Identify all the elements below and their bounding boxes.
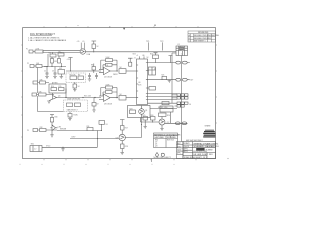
junction xyxy=(52,66,53,67)
junction xyxy=(61,66,62,67)
wire xyxy=(162,42,164,50)
attenuator group box A1 xyxy=(49,84,66,98)
op-amp U1 buffer xyxy=(80,49,176,54)
svg-text:TP1: TP1 xyxy=(146,41,149,43)
svg-text:SPARE: SPARE xyxy=(205,124,212,127)
connector oval pair P3 xyxy=(176,78,187,81)
resistor R8 vertical xyxy=(92,64,96,74)
svg-text:R8: R8 xyxy=(91,65,93,67)
small box R20 xyxy=(153,55,159,59)
svg-text:ATTEN: ATTEN xyxy=(52,81,58,84)
resistor R2 vertical xyxy=(92,41,97,52)
connector block J3 pins xyxy=(177,94,188,99)
junction xyxy=(116,70,117,71)
resistor R16 xyxy=(67,103,73,107)
svg-text:R24: R24 xyxy=(167,115,170,117)
wire xyxy=(148,42,150,50)
small box R22 xyxy=(148,87,156,91)
fold mark triangle xyxy=(123,28,125,30)
input row 2: connector J1-2 xyxy=(30,65,48,94)
scan speck xyxy=(154,25,155,26)
svg-text:GAIN SELECT: GAIN SELECT xyxy=(67,108,78,111)
input row 6: sensor box B1 xyxy=(30,146,98,152)
svg-text:R26: R26 xyxy=(151,115,154,117)
resistor R17 xyxy=(75,103,81,107)
zone tick marks left edge xyxy=(21,45,22,137)
junction xyxy=(47,66,48,67)
power tick +5V xyxy=(154,53,158,63)
resistor R14 xyxy=(51,88,57,91)
junction xyxy=(94,97,95,98)
svg-text:SCHEMATIC DIAGRAM DCU: SCHEMATIC DIAGRAM DCU xyxy=(194,145,220,148)
fanout wires 3 xyxy=(148,94,178,100)
svg-text:86203: 86203 xyxy=(177,150,181,152)
svg-text:S1: S1 xyxy=(106,124,108,126)
resistor R24 xyxy=(159,113,167,117)
svg-text:U5 7406: U5 7406 xyxy=(161,107,167,109)
svg-text:R7: R7 xyxy=(78,74,80,76)
svg-text:SENSE: SENSE xyxy=(60,129,67,131)
border frame xyxy=(23,28,216,159)
wire xyxy=(70,58,72,72)
ground xyxy=(168,80,171,83)
svg-text:.01: .01 xyxy=(106,65,108,67)
diode CR2 xyxy=(58,59,61,64)
capacitor C7 xyxy=(88,73,91,79)
svg-text:463 1042 001 REV C: 463 1042 001 REV C xyxy=(186,140,204,142)
resistor R32 xyxy=(162,102,169,105)
input row 4: connector J1-4 xyxy=(32,93,64,112)
resistor R12 xyxy=(40,81,46,84)
junction xyxy=(116,97,117,98)
diode CR1 xyxy=(51,59,54,64)
resistor R16a vertical xyxy=(73,84,77,88)
svg-text:SEE SHEET 1: SEE SHEET 1 xyxy=(194,41,206,43)
connector P1/J2 inline pair xyxy=(176,61,187,64)
svg-text:TP2: TP2 xyxy=(160,41,163,43)
ground xyxy=(160,129,163,131)
resistor R15 xyxy=(59,88,65,91)
wire bus xyxy=(44,54,66,67)
svg-text:P5: P5 xyxy=(27,130,29,132)
flag note symbol xyxy=(155,153,164,158)
feedback resistor R9 xyxy=(101,59,117,70)
ground xyxy=(120,153,124,155)
sheet fold tick bottom xyxy=(151,159,153,162)
svg-text:SCALE NONE SHEET 1 OF 1: SCALE NONE SHEET 1 OF 1 xyxy=(184,156,207,159)
stub wires to J3 xyxy=(172,95,177,98)
revision table xyxy=(188,31,216,42)
wire drop xyxy=(37,68,39,94)
svg-text:1 2: 1 2 xyxy=(34,149,36,151)
svg-text:R15: R15 xyxy=(59,86,62,88)
svg-text:MUX: MUX xyxy=(138,85,141,87)
svg-text:R19 R24: R19 R24 xyxy=(167,139,174,141)
transistor Q3 xyxy=(119,134,125,144)
resistor R17A xyxy=(68,112,72,121)
scan speck xyxy=(77,24,80,27)
dark logo cell xyxy=(196,148,204,151)
svg-text:Q4: Q4 xyxy=(58,96,60,98)
relay K1 xyxy=(176,46,188,56)
resistor R26 xyxy=(151,117,156,123)
svg-text:GAIN NETWORK: GAIN NETWORK xyxy=(67,98,81,101)
wires to J4 xyxy=(148,103,178,108)
wire harness vertical xyxy=(181,56,183,142)
resistor R21 xyxy=(162,76,167,79)
svg-text:E 28959: E 28959 xyxy=(206,150,213,152)
resistor R25 xyxy=(143,117,148,129)
svg-text:R4: R4 xyxy=(49,53,51,55)
input row 3: connector J1-3 xyxy=(33,81,49,84)
junction xyxy=(70,70,71,71)
ground xyxy=(45,77,49,79)
power tick +15V xyxy=(169,56,173,63)
fanout wire 1 xyxy=(148,62,190,64)
power tick xyxy=(68,57,72,59)
svg-text:NOTES: SEE SHEET 2: NOTES: SEE SHEET 2 xyxy=(154,157,172,159)
middle stage components xyxy=(61,82,102,98)
svg-text:R5: R5 xyxy=(59,52,61,54)
logic box U5 xyxy=(160,106,173,112)
svg-text:NEXT: NEXT xyxy=(177,143,181,145)
svg-text:VR1: VR1 xyxy=(59,68,62,70)
transistor Q2 xyxy=(141,117,166,129)
transistor Q1 xyxy=(139,109,145,115)
resistor R5 xyxy=(58,53,64,56)
transistor Q4 xyxy=(49,93,61,101)
resistor R6 xyxy=(70,76,77,80)
+V power tick xyxy=(92,40,97,42)
svg-text:REVISED PER ECO 1042 REL: REVISED PER ECO 1042 REL xyxy=(194,35,219,37)
bus junction dots xyxy=(62,124,142,148)
fanout wire 2 xyxy=(148,79,190,81)
svg-text:P2: P2 xyxy=(27,63,29,65)
svg-text:K1: K1 xyxy=(178,44,180,46)
bottom margin alignment dots xyxy=(20,164,175,165)
svg-text:SK 463 1042: SK 463 1042 xyxy=(193,154,208,156)
svg-text:U6: U6 xyxy=(138,82,140,84)
base wire Q3 xyxy=(70,138,119,140)
resistor R13 xyxy=(39,93,47,96)
resistor R3 xyxy=(36,65,42,68)
svg-text:CR3: CR3 xyxy=(58,127,61,129)
resistor R27 xyxy=(121,126,125,131)
ground xyxy=(50,135,54,137)
wire drop xyxy=(38,96,64,112)
input row 5: connector J1-5 xyxy=(33,129,57,132)
zone tick marks right edge xyxy=(216,45,217,123)
svg-text:P1: P1 xyxy=(26,48,28,50)
svg-text:R31: R31 xyxy=(87,126,90,128)
svg-text:U4: U4 xyxy=(154,69,156,71)
IC U4 xyxy=(148,67,156,75)
resistor R4 xyxy=(50,54,56,57)
svg-text:3-1: 3-1 xyxy=(208,38,211,40)
svg-text:J4: J4 xyxy=(189,104,191,106)
release stamp xyxy=(203,130,215,138)
tap wire xyxy=(53,52,62,54)
resistor R28 xyxy=(120,144,124,155)
relay return wire xyxy=(172,53,176,103)
power section cluster xyxy=(44,52,66,78)
wire xyxy=(33,51,80,53)
svg-text:+15: +15 xyxy=(77,41,80,43)
connector block J4 pins xyxy=(177,102,188,107)
junction xyxy=(141,124,142,125)
resistor R31 xyxy=(87,128,102,148)
svg-text:Q1: Q1 xyxy=(145,110,147,112)
svg-text:C2: C2 xyxy=(44,71,46,73)
junction xyxy=(93,51,94,52)
svg-text:R23: R23 xyxy=(130,109,133,111)
svg-text:R30: R30 xyxy=(55,117,58,119)
resistor R1 xyxy=(35,50,43,53)
ground xyxy=(60,77,64,79)
relay coil symbol xyxy=(180,47,184,50)
op-amp U3 xyxy=(99,92,118,101)
junction xyxy=(82,97,83,98)
junction xyxy=(97,138,98,139)
svg-text:R27: R27 xyxy=(125,128,128,130)
driver block box xyxy=(128,106,151,118)
zone tick marks top edge xyxy=(44,26,198,27)
ground xyxy=(88,79,91,81)
capacitor C8 xyxy=(95,73,98,79)
svg-text:C9: C9 xyxy=(97,104,99,106)
U6 power stubs xyxy=(140,56,145,59)
svg-text:R14: R14 xyxy=(51,86,54,88)
feedback capacitor C10 xyxy=(103,63,117,69)
pin ticks xyxy=(137,63,148,100)
feedback capacitor C11 xyxy=(103,91,117,97)
svg-text:R25: R25 xyxy=(143,115,146,117)
junction xyxy=(172,94,173,95)
capacitor C9 vertical xyxy=(92,98,96,113)
svg-text:R6 10K: R6 10K xyxy=(70,74,77,76)
switch S1 xyxy=(99,121,105,131)
junction xyxy=(172,97,173,98)
bus wire xyxy=(61,97,102,99)
ground xyxy=(68,119,72,121)
ground xyxy=(47,101,51,103)
wire row5 to stage xyxy=(57,130,87,132)
power rail resistor R11 xyxy=(128,58,133,66)
IC U6 multiplexer xyxy=(137,59,148,105)
svg-text:R15 22K: R15 22K xyxy=(84,96,92,98)
zone tick marks bottom edge xyxy=(44,159,196,161)
svg-text:C3: C3 xyxy=(52,71,54,73)
input row 1: connector J1-1 xyxy=(29,50,80,53)
svg-text:REVISIONS: REVISIONS xyxy=(198,32,209,34)
svg-text:R20: R20 xyxy=(150,54,153,56)
junction xyxy=(65,97,66,98)
parts list table xyxy=(154,133,178,148)
application block xyxy=(177,142,184,159)
svg-text:+5: +5 xyxy=(136,55,138,57)
resistor R23 xyxy=(130,110,136,114)
svg-text:TB1: TB1 xyxy=(31,144,34,146)
svg-text:U3 LM108: U3 LM108 xyxy=(104,103,112,105)
dashed gain block 2 xyxy=(64,100,88,112)
capacitor C2 xyxy=(46,70,49,76)
svg-text:CHECK: CHECK xyxy=(184,146,191,148)
transistor chain: power tick xyxy=(120,120,125,135)
voltage regulator VR1 xyxy=(58,70,65,75)
junction xyxy=(101,130,102,131)
potentiometer R10 xyxy=(119,69,137,74)
svg-text:2. ALL CAPACITORS IN MICROFARA: 2. ALL CAPACITORS IN MICROFARADS xyxy=(28,39,67,42)
svg-text:R28: R28 xyxy=(125,146,128,148)
capacitor C3 xyxy=(54,70,57,76)
feedback resistor R18 xyxy=(101,86,117,96)
connector P2 inline pair xyxy=(165,112,188,125)
title block xyxy=(183,142,216,159)
ground xyxy=(53,77,57,79)
op-amp U2 xyxy=(99,65,118,75)
dashed gain block 1 xyxy=(66,73,86,83)
junction xyxy=(62,147,63,148)
collector wire Q3 to driver xyxy=(125,118,141,138)
wire bus mid xyxy=(66,70,101,72)
svg-text:R21: R21 xyxy=(162,75,165,77)
ground xyxy=(61,147,65,151)
resistor R29 xyxy=(40,129,47,132)
svg-text:CR1: CR1 xyxy=(54,61,57,63)
potentiometer R19 xyxy=(119,95,137,100)
op-amp power pin wires xyxy=(81,43,84,50)
svg-text:U2 LM108: U2 LM108 xyxy=(104,76,112,78)
misc value labels xyxy=(55,54,165,148)
svg-text:Q3: Q3 xyxy=(155,145,157,147)
lower stage resistor R30 xyxy=(50,115,54,126)
ground xyxy=(73,90,76,92)
svg-text:2-4: 2-4 xyxy=(208,35,211,37)
junction xyxy=(152,122,153,123)
ground xyxy=(92,110,95,112)
resistor R7 xyxy=(78,76,84,80)
ground xyxy=(144,125,147,129)
svg-text:ZERO: ZERO xyxy=(113,74,118,76)
diode CR3 xyxy=(50,125,57,137)
svg-text:GENERAL DYNAMICS ELEC: GENERAL DYNAMICS ELEC xyxy=(193,142,219,145)
scan speck right xyxy=(227,158,228,159)
